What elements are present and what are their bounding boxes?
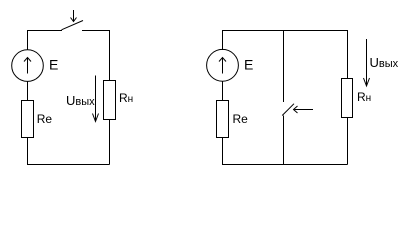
- resistor Re (right) body: [217, 101, 229, 138]
- svg-text:Re: Re: [37, 112, 53, 126]
- wire: middle branch upper segment: [283, 31, 285, 103]
- svg-text:E: E: [244, 57, 253, 73]
- switch S1 (open, on top wire) blade: [62, 21, 84, 30]
- wire: RH bottom to bottom-right corner (right circuit): [347, 118, 349, 165]
- wire: Re bottom to bottom-left corner and bottom wire: [28, 138, 110, 165]
- switch S1 actuation arrow (down): [71, 10, 77, 22]
- wire: between source bottom and Re top: [27, 81, 29, 100]
- svg-text:Uвых: Uвых: [66, 93, 95, 108]
- wire: RH bottom to bottom-right corner: [109, 120, 111, 165]
- svg-text:Rн: Rн: [357, 90, 371, 104]
- wire: top-left segment from source to switch: [28, 31, 63, 51]
- svg-text:Re: Re: [233, 112, 249, 126]
- source E1 (circle symbol): [12, 50, 44, 82]
- source E2 internal up arrow: [219, 58, 226, 74]
- wire: middle branch lower segment: [283, 116, 285, 165]
- svg-text:E: E: [49, 57, 58, 73]
- svg-text:Uвых: Uвых: [370, 55, 399, 70]
- source E1 internal up arrow: [24, 58, 31, 74]
- wire: top wire full span: [223, 31, 348, 79]
- resistor Re (left) body: [22, 101, 34, 138]
- wire: between source bottom and Re top (right): [222, 81, 224, 101]
- svg-text:Rн: Rн: [119, 91, 133, 105]
- resistor RH (load, right circuit) body: [342, 79, 353, 118]
- wire: Re bottom to bottom wire (right circuit): [223, 138, 348, 165]
- switch S2 blade (middle branch, open): [282, 104, 294, 116]
- arrow: Uvyh output voltage (down, right circuit): [364, 39, 370, 86]
- wire: top-right segment from switch to right branch: [82, 31, 110, 81]
- resistor RH (load, left circuit) body: [104, 81, 116, 120]
- arrow: Uvyh output voltage (down, left circuit): [93, 76, 99, 122]
- source E2 (circle symbol): [207, 49, 239, 81]
- switch S2 actuation arrow (left-pointing): [294, 106, 314, 113]
